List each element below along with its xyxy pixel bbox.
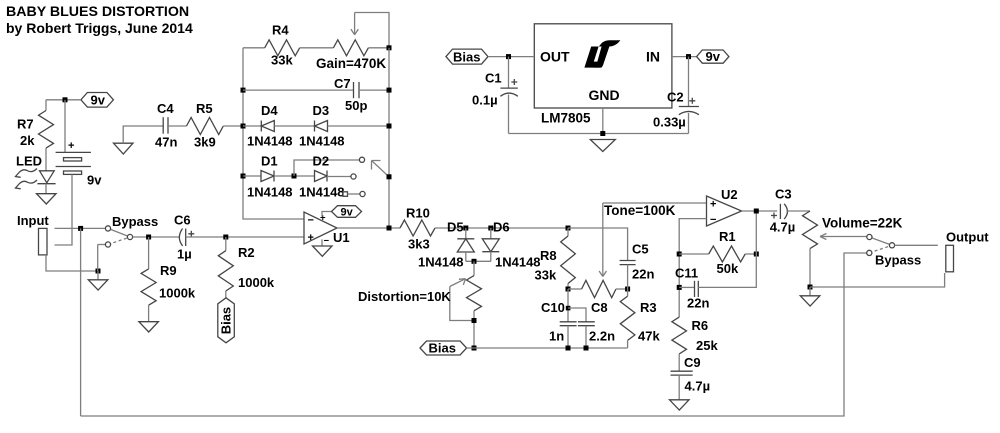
svg-text:R3: R3 [640,300,657,315]
svg-text:C5: C5 [632,242,649,257]
junction C7/rail [387,88,392,93]
junction selector/rail [387,174,392,179]
op-amp U2 [707,187,742,226]
wire C7 row [243,89,354,91]
svg-text:R7: R7 [17,117,34,132]
wire R1 right lead [745,253,756,255]
wire C3 to volume pot [786,210,810,212]
wire tap to selector top contact [294,160,359,176]
junction D1/D2 tap [292,174,297,179]
wire D1 row [243,175,261,177]
svg-text:1000k: 1000k [159,286,196,301]
wire R10 to D5/D6 [435,227,568,229]
wire C7 to rail [359,89,389,91]
svg-text:9v: 9v [91,92,106,107]
potentiometer Volume 22K [803,211,903,249]
switch SW1 bypass (input) [98,214,159,271]
wire D3 to rail [328,125,390,127]
svg-text:R6: R6 [692,318,709,333]
svg-text:D3: D3 [313,103,330,118]
junction C1 top [506,54,511,59]
svg-text:C1: C1 [485,71,502,86]
wire D4 row [243,125,261,127]
svg-text:+: + [68,140,74,152]
svg-text:0.33µ: 0.33µ [653,115,686,130]
wire Bias rail [467,347,628,349]
node Bias (R2) [218,298,235,343]
junction R1 right [754,252,759,257]
wire switch common to jack [895,244,938,246]
junction pot/Bias rail [472,346,477,351]
wire GND pin stub [602,108,604,134]
svg-text:−: − [308,215,314,227]
wire bypass send down [80,228,82,416]
junction volume/sleeve [808,285,813,290]
wire R1 left lead [679,253,709,255]
wire pot to Bias rail [473,311,475,348]
svg-text:Bias: Bias [219,307,234,334]
svg-text:D6: D6 [493,220,510,235]
svg-text:R10: R10 [406,206,430,221]
capacitor C6 [174,213,194,262]
diode D4 [247,103,293,149]
svg-text:1000k: 1000k [238,275,275,290]
svg-text:25k: 25k [696,338,718,353]
svg-text:C10: C10 [541,300,565,315]
capacitor C10 [541,300,577,348]
svg-text:1n: 1n [549,329,564,344]
resistor R4 [265,23,300,68]
svg-text:C6: C6 [174,213,191,228]
resistor R9 [141,237,196,322]
wire R7 top lead [45,100,47,111]
svg-text:C3: C3 [775,186,792,201]
battery BT1 9v [56,100,103,188]
svg-text:Bias: Bias [429,341,456,356]
svg-text:U2: U2 [721,187,738,202]
regulator U3 LM7805 [534,24,672,126]
junction C10/Bias rail [566,346,571,351]
switch SW3 bypass (output) [867,234,922,267]
wire tone wiper to U2 + [603,202,707,204]
wire stub to selector bottom contact [348,193,360,195]
potentiometer Distortion 10K [358,276,482,321]
svg-text:47n: 47n [155,135,177,150]
wire 7805 bottom rail [509,133,689,135]
wire D1 to D2 [274,175,315,177]
svg-text:4.7µ: 4.7µ [770,220,796,235]
resistor R2 [218,237,275,298]
input jack J1 [39,228,48,255]
svg-text:Distortion=10K: Distortion=10K [358,289,451,304]
wire ground stub (volume) [809,287,811,296]
wire tone pot right lead [616,288,628,290]
wire feedback rail (output) [388,48,390,228]
svg-text:D2: D2 [313,154,330,169]
wire C4 to R5 [168,125,187,127]
svg-text:−: − [324,236,330,247]
svg-text:Bypass: Bypass [875,253,921,268]
output jack J2 [946,245,954,271]
capacitor C11 [675,266,709,311]
junction D5 [463,226,468,231]
wire tone pot left lead [568,288,582,290]
junction rail/D4 [241,124,246,129]
svg-text:C8: C8 [591,300,608,315]
junction R1 left [677,252,682,257]
junction R2 top [223,235,228,240]
diode D2 [299,154,345,200]
svg-text:0.1µ: 0.1µ [472,93,498,108]
junction C8 tap [566,306,571,311]
wire C11 to output leg [698,211,756,287]
wire C8 branch [568,308,586,322]
svg-text:9v: 9v [341,206,354,218]
wire bottom bypass rail [81,253,867,416]
junction sleeve/ground [96,269,101,274]
svg-text:1µ: 1µ [177,247,192,262]
svg-text:R1: R1 [719,229,736,244]
svg-text:+: + [710,199,716,211]
svg-text:GND: GND [589,87,620,103]
wire R7 to LED [45,148,47,171]
svg-text:Output: Output [946,230,989,245]
resistor R6 [672,317,719,371]
potentiometer Tone 100K [582,203,676,298]
svg-text:Bypass: Bypass [112,214,158,229]
wire U1 output [337,227,400,229]
wire Gain to output rail [368,47,389,49]
switch SW2 diode selector [351,157,389,196]
svg-text:D4: D4 [261,103,278,118]
svg-text:C11: C11 [675,266,698,281]
capacitor C2 [653,57,699,134]
wire U1 ground pin [321,239,323,246]
ground (LED) [37,194,57,204]
diode D6 [482,220,540,270]
wire D2 to selector middle contact [327,176,351,178]
capacitor C8 [578,300,615,348]
svg-text:Gain=470K: Gain=470K [316,56,386,71]
svg-text:47k: 47k [638,329,660,344]
wire R4 to Gain pot [300,47,334,49]
wire switch to C6 [133,236,179,238]
node 9v (U1) [332,206,362,219]
junction Gain/rail [387,45,392,50]
svg-text:LED: LED [16,154,42,169]
wire R5 to inverting rail [223,125,243,127]
op-amp U1 [304,212,350,247]
svg-text:−: − [710,214,716,226]
wire C6 to R2/U1 [186,236,304,238]
svg-text:OUT: OUT [540,49,570,65]
junction battery+ [63,97,68,102]
svg-text:C9: C9 [684,355,701,370]
svg-text:D1: D1 [261,154,278,169]
wire main row to C5 [568,228,628,261]
junction D6 [488,226,493,231]
junction C2 top [686,54,691,59]
capacitor C1 [472,57,518,134]
svg-text:1N4148: 1N4148 [299,134,345,149]
node Bias (rail) [420,341,467,356]
capacitor C4 [155,101,177,150]
svg-text:22n: 22n [687,296,709,311]
svg-text:BABY BLUES DISTORTION: BABY BLUES DISTORTION [6,4,189,20]
ground (input) [88,280,108,290]
wire IN pin to 9v [672,56,697,58]
junction tip/bypass [78,226,83,231]
wire join to pot [473,261,475,275]
diode D3 [299,103,345,149]
svg-text:1N4148: 1N4148 [299,185,345,200]
ground (R9) [139,322,159,332]
capacitor C9 [671,355,711,400]
svg-text:R9: R9 [160,263,177,278]
svg-text:9v: 9v [87,173,102,188]
ground (C9) [670,400,690,410]
diode D1 [247,154,293,200]
resistor R10 [400,206,435,252]
capacitor C5 [620,242,655,290]
wire volume bottom [809,249,811,287]
svg-text:9v: 9v [706,49,721,64]
svg-text:1N4148: 1N4148 [418,255,464,270]
node 9v (7805 IN) [697,49,729,64]
wire ground to C4 [123,126,163,143]
capacitor C3 [770,186,796,234]
node 9v (battery) [81,92,114,107]
junction C8/Bias rail [584,346,589,351]
svg-text:3k9: 3k9 [194,135,216,150]
wire sleeve return [810,273,945,287]
svg-text:3k3: 3k3 [408,237,430,252]
junction diode join [472,259,477,264]
wire R4 row [243,47,265,49]
wire U1 power pin [322,212,332,217]
svg-text:33k: 33k [535,268,557,283]
resistor R8 [535,228,576,289]
wire jack sleeve [46,255,98,271]
wire U2 output [742,210,778,212]
resistor R7 [39,111,54,149]
wire D4 to D3 [274,125,314,127]
svg-text:1N4148: 1N4148 [247,134,293,149]
capacitor C7 [334,76,367,113]
svg-text:Bias: Bias [453,49,480,64]
svg-text:R2: R2 [238,245,255,260]
junction R9 top [146,235,151,240]
wire C11 left lead [679,286,694,288]
svg-text:U1: U1 [333,230,350,245]
svg-text:R5: R5 [196,101,213,116]
svg-text:C7: C7 [334,76,351,91]
svg-text:R4: R4 [272,23,289,38]
svg-text:Volume=22K: Volume=22K [822,216,903,231]
resistor R3 [620,289,660,348]
svg-text:C4: C4 [157,101,174,116]
resistor R1 [709,229,745,276]
wire U2 inverting input [679,219,706,318]
ground (volume) [800,296,820,306]
ground (7805) [590,140,615,152]
svg-text:33k: 33k [271,53,293,68]
wire D5/D6 join [466,260,491,262]
svg-text:IN: IN [646,49,660,65]
svg-text:Tone=100K: Tone=100K [604,203,676,218]
svg-text:2.2n: 2.2n [589,329,615,344]
wire ground stub [97,271,99,280]
svg-text:D5: D5 [447,220,464,235]
resistor R5 [187,101,224,150]
svg-text:+: + [308,232,314,244]
ground (C4) [114,143,134,154]
svg-text:by Robert Triggs, June 2014: by Robert Triggs, June 2014 [6,20,193,36]
junction R8 bottom / tone left [566,287,571,292]
wire jack tip [55,227,106,229]
svg-text:LM7805: LM7805 [541,111,591,126]
junction U2 out [754,209,759,214]
potentiometer Gain 470K [316,13,389,72]
wire LED to ground [45,184,47,194]
svg-text:C2: C2 [667,90,684,105]
junction wiper tie [472,318,477,323]
wire inverting input rail [243,48,304,219]
terminal stub (open) [343,192,348,197]
svg-text:50k: 50k [717,261,739,276]
ground (U1) [313,246,333,256]
svg-text:+: + [320,213,326,224]
junction U1 out/feedback [387,226,392,231]
junction C11 left [677,285,682,290]
wire 9v rail to R7 [46,99,81,101]
diode D5 [418,220,474,270]
svg-text:22n: 22n [632,267,654,282]
junction rail/C7 [241,88,246,93]
junction R8 main row [566,226,571,231]
junction D3/rail [387,124,392,129]
junction rail/D1 [241,174,246,179]
junction tone right/C5 [625,287,630,292]
junction GND/rail [600,131,605,136]
svg-text:2k: 2k [20,133,35,148]
wire battery- to input jack ring [55,174,73,245]
svg-text:R8: R8 [540,248,557,263]
wire Bias to OUT pin [488,56,534,58]
LED D (indicator) [16,169,56,189]
svg-text:Input: Input [17,213,49,228]
svg-text:4.7µ: 4.7µ [685,379,711,394]
svg-text:1N4148: 1N4148 [247,185,293,200]
svg-text:50p: 50p [345,98,367,113]
wire C10 upper [567,289,569,322]
node Bias (7805 OUT) [446,49,488,64]
